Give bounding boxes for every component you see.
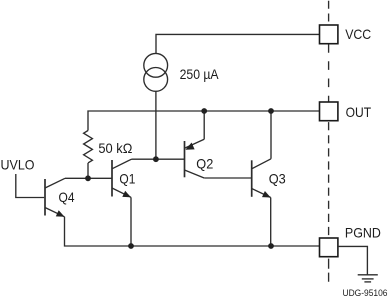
svg-text:OUT: OUT <box>346 104 372 120</box>
wire Q2 collector to Q3 base <box>204 177 252 179</box>
terminal PGND <box>320 238 338 257</box>
svg-text:50 kΩ: 50 kΩ <box>98 140 132 156</box>
svg-text:Q4: Q4 <box>59 189 75 205</box>
svg-text:UVLO: UVLO <box>1 156 35 172</box>
svg-text:Q2: Q2 <box>196 155 213 171</box>
wire resistor bottom to node B <box>87 163 89 178</box>
transistor Q4 <box>45 178 65 217</box>
terminal VCC <box>320 25 338 44</box>
svg-text:Q3: Q3 <box>269 171 286 187</box>
transistor Q1 <box>112 159 132 197</box>
resistor R1 50 kΩ <box>84 131 93 163</box>
transistor Q3 <box>252 159 271 198</box>
svg-text:250 µA: 250 µA <box>180 66 220 82</box>
wire OUT rail <box>88 111 320 131</box>
wire PGND to ground <box>338 246 367 274</box>
wire Q3 emitter to bottom rail <box>270 198 272 247</box>
terminal OUT <box>320 102 338 121</box>
node C Q2 emitter on OUT rail <box>201 108 207 114</box>
wire Q2 emitter to OUT rail <box>203 111 205 139</box>
node D Q3 collector on OUT rail <box>268 108 274 114</box>
wire Q4 collector to Q1 base <box>65 177 112 179</box>
wire Q3 collector to OUT rail <box>270 111 272 159</box>
wire dashed boundary line bottom segment <box>328 259 330 282</box>
wire Q1 collector to Q2 base <box>132 158 185 160</box>
wire UVLO to Q4 base <box>16 174 44 198</box>
svg-text:UDG-95106: UDG-95106 <box>343 288 388 298</box>
wire Q4 emitter to bottom rail <box>65 217 132 246</box>
wire dashed boundary line OUT to PGND segment <box>328 122 330 238</box>
wire dashed boundary line VCC to OUT segment <box>328 44 330 102</box>
wire bottom rail <box>131 245 320 247</box>
wire VCC rail <box>156 34 320 53</box>
node A current source junction <box>153 156 159 162</box>
node B resistor Q4 Q1 junction <box>85 175 91 181</box>
svg-text:VCC: VCC <box>345 26 371 42</box>
wire Q1 emitter to bottom rail <box>130 197 132 246</box>
transistor Q2 <box>185 139 205 178</box>
svg-text:Q1: Q1 <box>119 170 135 186</box>
current source I1 <box>144 53 168 91</box>
wire current source to node A <box>155 91 157 159</box>
wire dashed boundary line top segment <box>328 1 330 25</box>
svg-text:PGND: PGND <box>345 225 381 241</box>
node F Q3 emitter on bottom rail <box>268 243 274 249</box>
ground <box>358 275 378 282</box>
node E Q1 emitter on bottom rail <box>128 243 134 249</box>
